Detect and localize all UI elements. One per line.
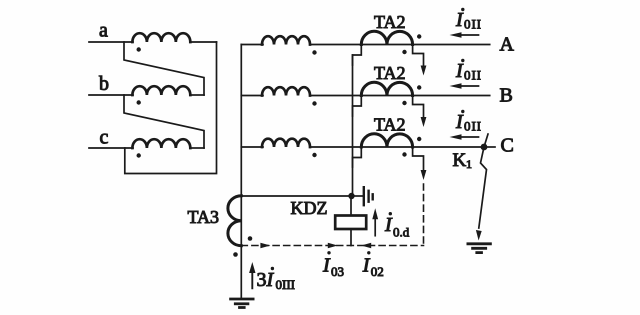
TA3 polarity dot left — [233, 252, 238, 257]
svg-text:b: b — [99, 73, 109, 95]
wire: winding b finish stub — [190, 94, 204, 96]
TA2-B secondary left bracket — [353, 96, 362, 117]
polarity dot secondary winding B — [312, 101, 316, 105]
primary winding a coil — [132, 33, 190, 42]
primary winding c coil — [132, 139, 190, 148]
label I0II phase C — [455, 110, 481, 134]
fault path zigzag to ground — [479, 134, 488, 228]
TA2-C polarity dot upper — [417, 137, 421, 141]
svg-text:TA2: TA2 — [374, 63, 406, 83]
current arrow I02 — [361, 243, 371, 249]
TA3 arcs — [228, 196, 241, 246]
TA2-C secondary current arrow down — [421, 170, 427, 180]
TA2-A secondary left bracket — [353, 45, 362, 66]
secondary winding A coil — [262, 36, 310, 44]
svg-text:K: K — [453, 150, 467, 171]
label I0II phase B — [455, 59, 481, 83]
TA2-C primary arcs — [361, 134, 412, 147]
relay KDZ coil box — [335, 216, 366, 230]
label K1 — [453, 150, 473, 171]
polarity dot secondary winding C — [312, 153, 316, 157]
svg-text:I: I — [455, 9, 464, 31]
current arrow I0II phase A — [450, 32, 479, 38]
svg-text:03: 03 — [331, 264, 344, 279]
TA2-B secondary current arrow down — [421, 117, 427, 127]
fault current arrowhead down — [476, 230, 482, 241]
return current arrow near TA3 — [260, 243, 270, 249]
svg-text:KDZ: KDZ — [291, 198, 328, 218]
wire: phase A secondary lead — [241, 44, 263, 46]
TA2-C polarity dot lower — [402, 152, 406, 156]
dashed return path horizontal — [241, 245, 423, 247]
wire: secondary star-point vertical bus — [240, 45, 242, 299]
svg-text:a: a — [99, 20, 108, 42]
secondary winding B coil — [262, 87, 310, 95]
wire: node to relay coil — [350, 196, 352, 216]
svg-text:I: I — [362, 255, 371, 277]
TA2-C secondary right bracket — [413, 147, 424, 170]
svg-text:TA2: TA2 — [374, 12, 406, 32]
TA2-A secondary current arrow down — [421, 66, 427, 76]
wire: phase C fault point to terminal — [484, 146, 495, 148]
TA2-B polarity dot upper — [417, 85, 421, 89]
wire: phase C line to fault point — [310, 146, 484, 148]
wire: phase c lead — [89, 147, 133, 149]
current arrow I0II phase B — [450, 83, 479, 89]
ground at star point — [231, 299, 254, 308]
wire: phase a lead — [89, 41, 133, 43]
svg-text:I: I — [266, 269, 275, 291]
svg-text:0II: 0II — [464, 68, 481, 83]
TA2-B secondary right bracket — [413, 96, 424, 118]
svg-text:0II: 0II — [464, 119, 481, 134]
wire: phase B line to terminal — [310, 95, 490, 97]
wire: phase b lead — [89, 94, 133, 96]
label I03 — [322, 251, 344, 279]
svg-text:I: I — [322, 255, 331, 277]
svg-text:0.d: 0.d — [393, 225, 410, 240]
dashed return path vertical (phase C branch) — [423, 184, 425, 246]
current arrow I0.d up — [372, 208, 378, 235]
TA2-A secondary right bracket — [413, 45, 424, 67]
wire: relay coil to return path — [350, 229, 352, 246]
ground (sideways) at relay node — [364, 187, 373, 205]
svg-text:0III: 0III — [276, 277, 296, 292]
current transformer TA2 phase C — [353, 115, 427, 181]
TA2-A primary arcs — [361, 31, 412, 44]
label 3I0III — [257, 267, 296, 292]
svg-text:I: I — [455, 60, 464, 82]
label I02 — [362, 251, 384, 279]
svg-text:C: C — [501, 135, 514, 157]
svg-text:1: 1 — [466, 157, 472, 171]
wire: phase A line to terminal — [310, 44, 490, 46]
current transformer TA3 — [188, 196, 253, 257]
TA2-B polarity dot lower — [402, 101, 406, 105]
TA2-B primary arcs — [361, 82, 412, 95]
wire: winding a finish to right bus — [190, 41, 216, 43]
svg-text:c: c — [100, 127, 109, 149]
polarity dot winding c — [137, 153, 141, 157]
svg-text:I: I — [455, 111, 464, 133]
svg-text:0II: 0II — [464, 17, 481, 32]
label I0.d — [384, 212, 410, 240]
wire: node to earthing symbol — [352, 195, 364, 197]
secondary winding C coil — [262, 139, 310, 147]
ground at fault — [468, 244, 491, 253]
current transformer TA2 phase B — [353, 63, 427, 127]
current transformer TA2 phase A — [353, 12, 427, 76]
TA2-A polarity dot lower — [402, 50, 406, 54]
svg-text:02: 02 — [371, 264, 384, 279]
relay node junction — [348, 193, 354, 199]
TA2-C secondary left bracket — [353, 147, 362, 167]
svg-text:A: A — [500, 34, 515, 56]
polarity dot winding b — [137, 100, 141, 104]
polarity dot winding a — [137, 47, 141, 51]
current arrow 3I0III up — [249, 262, 255, 288]
wire: star point to relay node — [241, 195, 351, 197]
polarity dot secondary winding A — [312, 50, 316, 54]
wire: phase B secondary lead — [241, 95, 263, 97]
TA3 polarity dot right — [248, 236, 253, 241]
svg-text:TA2: TA2 — [374, 115, 406, 135]
fault node on phase C — [481, 144, 488, 151]
TA2-A polarity dot upper — [417, 34, 421, 38]
svg-text:TA3: TA3 — [188, 207, 220, 227]
current arrow I03 — [328, 243, 338, 249]
wire: phase C secondary lead — [241, 146, 263, 148]
svg-text:3: 3 — [257, 269, 267, 291]
svg-text:B: B — [500, 85, 513, 107]
svg-text:I: I — [384, 214, 393, 236]
primary winding b coil — [132, 86, 190, 95]
wire: winding c finish stub — [190, 147, 204, 149]
wire: delta link node b to winding c finish — [124, 95, 204, 148]
label I0II phase A — [455, 8, 481, 32]
wire: TA2 secondary common line down to relay node — [352, 55, 354, 196]
wire: delta link node a to winding b finish — [124, 42, 204, 95]
wire: delta link node c to winding a finish (bottom and right bus) — [125, 42, 217, 174]
current arrow I0II phase C — [450, 134, 479, 140]
